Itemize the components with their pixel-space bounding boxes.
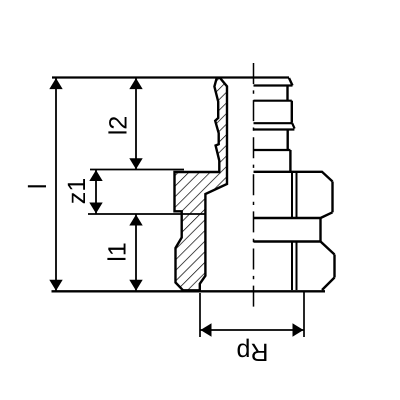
dimension line l2: [135, 78, 137, 170]
union nut top face: [254, 242, 335, 255]
union nut corner line 2: [296, 243, 298, 291]
bottom edge / extension line: [52, 290, 326, 292]
arrow Rp right: [293, 323, 304, 336]
label Rp: [238, 339, 267, 361]
union nut bottom chamfer: [322, 278, 335, 291]
barb band edge: [286, 86, 288, 101]
hex body corner line 1: [291, 173, 293, 217]
barb ring line y=85.5: [254, 84, 293, 86]
label z1: [68, 179, 85, 203]
arrow z1 top: [89, 170, 102, 181]
hex body top face: [254, 172, 333, 182]
union nut corner line 1: [291, 243, 293, 291]
extension line Rp left: [199, 293, 201, 337]
extension line z1 bottom: [88, 213, 206, 215]
union nut right edge: [333, 255, 335, 278]
groove edge: [319, 218, 321, 242]
label l2: [108, 117, 126, 134]
dimension line l1: [135, 214, 137, 291]
extension line z1 top / body face: [90, 169, 184, 171]
barb band edge 2: [287, 130, 289, 151]
arrow Rp left: [201, 323, 212, 336]
hex body right edge: [331, 182, 333, 213]
barb exterior right: top ring bevel: [289, 78, 293, 86]
section wall (barb end, hatched): [175, 78, 228, 291]
label l: [28, 185, 46, 187]
extension line Rp right: [303, 291, 305, 337]
barb rib edge: [291, 101, 293, 123]
arrow l1 bottom: [129, 280, 142, 291]
arrow l2 bottom: [129, 158, 142, 169]
hex body corner line 2: [296, 173, 298, 217]
barb collar edge: [289, 150, 291, 171]
barb ring line y=129.5: [254, 128, 295, 130]
arrow l bottom: [49, 280, 62, 291]
top edge / extension line of dimension l: [52, 76, 289, 78]
hex body bottom chamfer: [254, 212, 333, 218]
dimension line Rp: [200, 329, 304, 331]
dimension line l: [55, 78, 57, 292]
arrow z1 bottom: [89, 203, 102, 214]
arrow l top: [49, 78, 62, 89]
barb ring line y=150: [254, 149, 291, 151]
arrow l2 top: [129, 78, 142, 89]
label l1: [107, 243, 125, 260]
arrow l1 top: [129, 215, 142, 226]
barb rib lower line: [254, 122, 293, 124]
barb rib flare bevel: [292, 123, 294, 128]
barb ring line y=100.7: [254, 100, 292, 102]
dimension line z1: [95, 170, 97, 215]
centerline: [253, 63, 255, 307]
